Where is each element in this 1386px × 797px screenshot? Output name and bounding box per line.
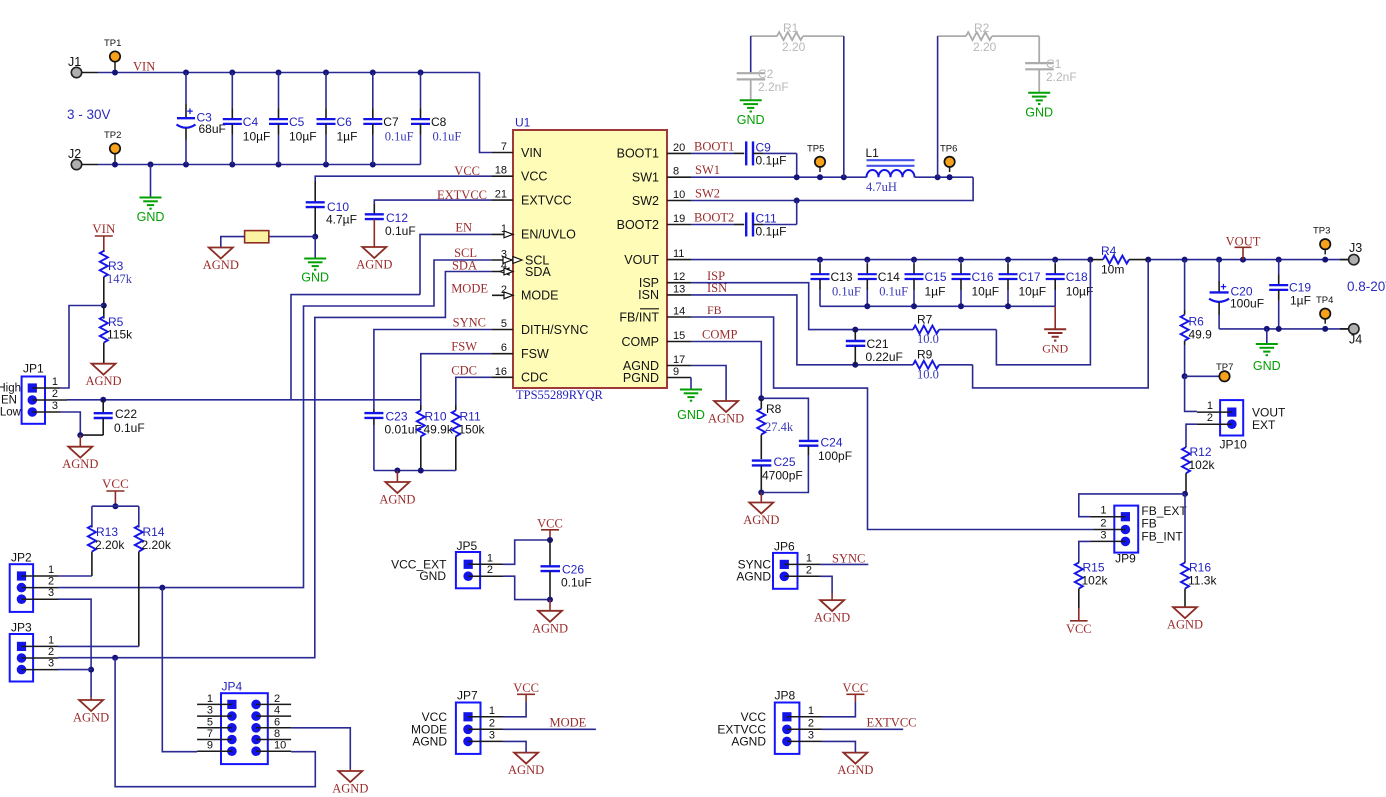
svg-text:10µF: 10µF — [1019, 285, 1047, 299]
wire COMP to R8 — [691, 342, 761, 399]
svg-text:AGND: AGND — [412, 735, 447, 749]
wire R13 to JP2 pin1 — [58, 575, 92, 577]
ground AGND at net tie — [209, 248, 233, 259]
svg-text:1: 1 — [489, 705, 495, 717]
svg-text:0.22uF: 0.22uF — [866, 350, 903, 364]
svg-text:27.4k: 27.4k — [765, 420, 794, 434]
U1 pin 19 BOOT2 — [667, 224, 691, 226]
svg-text:R12: R12 — [1190, 445, 1212, 459]
svg-text:FB_INT: FB_INT — [1141, 529, 1183, 543]
svg-text:2: 2 — [806, 564, 812, 576]
capacitor C23 0.01uF — [373, 409, 375, 413]
svg-text:C21: C21 — [867, 337, 889, 351]
snubber R1 2.20 (DNP) — [751, 35, 777, 37]
U1 pin 21 EXTVCC — [492, 199, 513, 201]
U1 pin 8 SW1 — [667, 176, 691, 178]
wire output bottom bus — [1219, 328, 1349, 330]
svg-text:10µF: 10µF — [289, 130, 317, 144]
svg-text:10µF: 10µF — [1066, 285, 1094, 299]
testpoint TP5 — [819, 162, 821, 172]
svg-text:+: + — [1220, 282, 1226, 294]
svg-text:18: 18 — [495, 165, 507, 177]
capacitor C18 10uF — [1054, 260, 1056, 264]
resistor R3 147k — [103, 250, 105, 252]
capacitor C22 0.1uF — [102, 400, 104, 413]
wire SDA branch to JP4 pin10 — [115, 658, 315, 787]
ground AGND under JP4 — [349, 769, 351, 771]
svg-text:VCC: VCC — [843, 681, 869, 695]
ground GND under C1 — [1028, 92, 1050, 94]
svg-text:AGND: AGND — [508, 763, 544, 777]
resistor R4 10m shunt — [1090, 259, 1103, 261]
svg-text:High: High — [0, 383, 21, 395]
svg-text:10: 10 — [673, 189, 685, 201]
svg-text:2: 2 — [1207, 412, 1213, 424]
svg-text:3: 3 — [48, 658, 54, 670]
svg-text:5: 5 — [501, 318, 507, 330]
svg-text:10.0: 10.0 — [917, 368, 939, 382]
wire DITH/SYNC to C23 — [374, 330, 492, 410]
junction dot C21 top — [852, 327, 858, 333]
wire SYNC stub — [820, 563, 868, 565]
ground AGND under R5 — [92, 364, 116, 375]
U1 pin2 MODE arrow — [504, 292, 513, 299]
capacitor C13 0.1uF — [819, 260, 821, 264]
ground GND PGND pin 9 — [690, 378, 692, 390]
svg-text:COMP: COMP — [702, 328, 737, 342]
svg-text:FB/INT: FB/INT — [619, 310, 659, 324]
junction dot R6 bottom — [1182, 373, 1188, 379]
svg-text:19: 19 — [673, 213, 685, 225]
svg-text:7: 7 — [207, 728, 213, 740]
wire junction to JP1 pin1 — [60, 306, 104, 389]
svg-text:SW1: SW1 — [695, 163, 720, 177]
junction dot C22 top — [100, 397, 106, 403]
wire AGND pin 17 — [691, 366, 726, 400]
svg-text:0.1uF: 0.1uF — [879, 285, 908, 299]
svg-text:10m: 10m — [1101, 263, 1124, 277]
svg-text:C12: C12 — [386, 211, 408, 225]
svg-text:3: 3 — [207, 705, 213, 717]
capacitor C1 2.2nF (DNP) — [1038, 36, 1040, 63]
resistor R12 102k — [1185, 446, 1187, 447]
svg-text:2: 2 — [487, 564, 493, 576]
ground GND at C10 — [314, 237, 316, 259]
svg-text:GND: GND — [1042, 342, 1068, 356]
capacitor C25 4700pF — [752, 459, 772, 461]
svg-text:0.8-20V: 0.8-20V — [1347, 279, 1386, 294]
wire FB_EXT to JP9 pin1 — [1079, 494, 1185, 517]
svg-text:R9: R9 — [917, 348, 933, 362]
capacitor C16 10uF — [960, 260, 962, 264]
junction dot JP3 pin2 — [112, 655, 118, 661]
svg-text:R11: R11 — [460, 410, 481, 424]
svg-text:JP10: JP10 — [1220, 438, 1248, 452]
resistor R8 27.4k — [760, 398, 762, 408]
svg-text:MODE: MODE — [451, 281, 488, 295]
svg-text:GND: GND — [137, 210, 165, 224]
jumper JP10 — [1220, 400, 1243, 435]
net tie NT1 yellow — [269, 236, 315, 238]
ground GND output — [1266, 329, 1268, 344]
wire SW2 loop — [691, 177, 973, 200]
svg-text:R16: R16 — [1189, 561, 1211, 575]
junction dots VOUT rail — [817, 257, 823, 263]
ground AGND under R16 — [1173, 607, 1197, 618]
wire JP1 pin3 to AGND — [60, 412, 80, 435]
svg-text:AGND: AGND — [736, 569, 771, 583]
junction dot R3/R5 — [101, 303, 107, 309]
wire SCL net — [58, 260, 492, 588]
U1 pin 5 DITH/SYNC — [492, 329, 513, 331]
svg-text:16: 16 — [495, 366, 507, 378]
svg-text:SW2: SW2 — [632, 194, 659, 208]
testpoint TP3 — [1324, 244, 1326, 254]
resistor R10 49.9k — [420, 405, 422, 410]
svg-text:2.20: 2.20 — [973, 40, 997, 54]
svg-text:EXTVCC: EXTVCC — [521, 193, 572, 207]
wire AGND bus under C23 — [374, 470, 456, 472]
svg-text:AGND: AGND — [814, 611, 850, 625]
svg-text:C22: C22 — [115, 407, 137, 421]
svg-text:0.1µF: 0.1µF — [756, 154, 787, 168]
wire EN net JP1 pin2 to U1 pin1 — [67, 399, 420, 401]
U1 pin 12 ISP — [667, 282, 691, 284]
svg-text:2.2nF: 2.2nF — [1046, 70, 1077, 84]
svg-text:R14: R14 — [143, 525, 165, 539]
svg-text:C13: C13 — [831, 270, 853, 284]
svg-text:TP6: TP6 — [940, 144, 957, 155]
svg-text:1: 1 — [1100, 505, 1106, 517]
svg-text:115k: 115k — [107, 328, 133, 342]
wire JP7 pin3 to AGND — [503, 741, 526, 752]
ground GND input — [150, 165, 152, 198]
junction dot JP2 pin2 — [159, 585, 165, 591]
junction dot VCC C26 — [547, 537, 553, 543]
junction dots VIN rail — [112, 70, 118, 76]
wire VIN top rail — [98, 72, 480, 74]
svg-text:TP1: TP1 — [104, 38, 121, 49]
svg-text:COMP: COMP — [622, 335, 660, 349]
wire FB net to JP9 pin2 — [691, 317, 1093, 530]
svg-text:0.1uF: 0.1uF — [385, 224, 416, 238]
svg-text:CDC: CDC — [451, 363, 477, 377]
junction dots output bottom — [1264, 326, 1270, 332]
junction dots bottom rail — [112, 162, 118, 168]
junction dot C21 bottom — [852, 362, 858, 368]
svg-text:R4: R4 — [1101, 244, 1117, 258]
svg-text:VIN: VIN — [521, 146, 542, 160]
svg-text:C9: C9 — [756, 141, 772, 155]
svg-text:AGND: AGND — [743, 513, 779, 527]
svg-text:1: 1 — [487, 552, 493, 564]
svg-text:10µF: 10µF — [972, 285, 1000, 299]
svg-text:C23: C23 — [386, 410, 408, 424]
svg-text:R1: R1 — [783, 21, 799, 35]
svg-text:3: 3 — [1100, 529, 1106, 541]
svg-text:EN: EN — [455, 220, 472, 234]
svg-text:C4: C4 — [243, 115, 259, 129]
resistor R7 10.0 — [913, 326, 939, 334]
svg-text:1: 1 — [52, 376, 58, 388]
connector J1 — [71, 67, 81, 77]
svg-text:TP7: TP7 — [1216, 362, 1233, 373]
svg-text:EXT: EXT — [1252, 418, 1276, 432]
ground GND under C2 — [740, 99, 762, 101]
junction dot SW2 C11 — [794, 198, 800, 204]
wire FSW to R10 — [421, 354, 492, 405]
svg-text:JP4: JP4 — [222, 680, 243, 694]
capacitor C10 4.7uF — [314, 181, 316, 202]
svg-text:FSW: FSW — [521, 347, 549, 361]
svg-text:Low: Low — [0, 407, 22, 419]
capacitor C21 0.22uF — [854, 330, 856, 341]
connector J3 — [1349, 254, 1359, 264]
svg-text:102k: 102k — [1189, 458, 1216, 472]
svg-text:VIN: VIN — [133, 60, 155, 74]
capacitor C19 1uF — [1278, 260, 1280, 275]
svg-text:AGND: AGND — [203, 258, 239, 272]
svg-text:C6: C6 — [337, 115, 353, 129]
wire R7 to R4 left — [996, 260, 1090, 365]
svg-text:EN: EN — [1, 395, 17, 407]
wire VIN down to U1 pin 7 — [480, 73, 493, 153]
svg-text:FB: FB — [707, 303, 722, 317]
svg-text:1: 1 — [48, 634, 54, 646]
svg-text:C14: C14 — [878, 270, 900, 284]
svg-text:BOOT1: BOOT1 — [694, 139, 734, 153]
svg-text:3: 3 — [808, 729, 814, 741]
wire JP7 pin1 to VCC — [503, 702, 526, 717]
svg-text:9: 9 — [207, 740, 213, 752]
svg-text:FB: FB — [1141, 517, 1156, 531]
svg-text:0.1uF: 0.1uF — [561, 576, 592, 590]
U1 pin 7 VIN — [492, 152, 513, 154]
svg-text:1: 1 — [48, 564, 54, 576]
svg-text:JP6: JP6 — [774, 539, 795, 553]
svg-text:13: 13 — [673, 283, 685, 295]
svg-text:J3: J3 — [1349, 241, 1362, 255]
wire SW1 row — [691, 176, 867, 178]
svg-text:10: 10 — [274, 740, 286, 752]
svg-text:R8: R8 — [766, 402, 782, 416]
testpoint TP7 — [1185, 375, 1219, 377]
svg-text:JP5: JP5 — [457, 539, 478, 553]
svg-text:J2: J2 — [68, 147, 81, 161]
svg-text:2: 2 — [808, 717, 814, 729]
U1 pin 9 PGND — [667, 377, 691, 379]
svg-text:2: 2 — [274, 693, 280, 705]
ground AGND under JP8 — [843, 753, 867, 764]
svg-text:GND: GND — [1253, 359, 1281, 373]
wire SCL branch to JP4 pin9 — [162, 588, 197, 752]
op-amp U1 TPS55289RYQR body — [513, 130, 667, 388]
svg-text:15: 15 — [673, 330, 685, 342]
U1 pin 2 MODE — [492, 294, 513, 296]
svg-text:2.20k: 2.20k — [142, 538, 172, 552]
connector J4 — [1349, 324, 1359, 334]
svg-text:JP1: JP1 — [23, 362, 44, 376]
junction dots bottom bus — [864, 303, 870, 309]
svg-text:3: 3 — [48, 587, 54, 599]
resistor R13 2.20k — [91, 506, 93, 526]
wire SW1 after L1 — [915, 176, 974, 178]
wire VOUT rail — [691, 259, 1090, 261]
wire JP4 pin6 to AGND — [291, 728, 350, 769]
wire BOOT2 to C11 — [691, 224, 734, 226]
power port VCC under R15 — [1078, 608, 1080, 621]
ground AGND under C25 — [760, 493, 762, 503]
ground AGND at C12 — [362, 247, 386, 258]
wire R12 node to R16 — [1184, 494, 1186, 561]
svg-text:PGND: PGND — [623, 371, 659, 385]
svg-text:10µF: 10µF — [243, 130, 271, 144]
junction dot R8 top — [758, 395, 764, 401]
wire R2 left leg — [937, 36, 939, 177]
resistor R16 11.3k — [1184, 561, 1186, 563]
capacitor C15 1uF — [913, 260, 915, 264]
svg-text:U1: U1 — [515, 116, 531, 130]
svg-text:AGND: AGND — [708, 412, 744, 426]
svg-text:49.9: 49.9 — [1189, 328, 1213, 342]
capacitor C17 10uF — [1007, 260, 1009, 264]
svg-text:DITH/SYNC: DITH/SYNC — [521, 323, 588, 337]
svg-text:10.0: 10.0 — [917, 332, 939, 346]
U1 pin 15 COMP — [667, 341, 691, 343]
svg-text:11.3k: 11.3k — [1188, 574, 1217, 588]
wire MODE stub JP7 — [503, 728, 596, 730]
svg-text:MODE: MODE — [550, 716, 587, 730]
U1 pin 20 BOOT1 — [667, 152, 691, 154]
svg-text:2: 2 — [48, 576, 54, 588]
svg-text:17: 17 — [673, 354, 685, 366]
ground AGND pin17 — [725, 400, 727, 402]
wire CDC to R11 — [456, 377, 492, 405]
capacitor C3 electrolytic 68uF — [185, 73, 187, 105]
junction dots AGND bus — [394, 468, 400, 474]
ground AGND under JP1 — [79, 435, 81, 447]
svg-text:CDC: CDC — [521, 371, 548, 385]
snubber R2 2.20 (DNP) — [938, 35, 966, 37]
capacitor C6 1uF — [325, 73, 327, 109]
svg-text:J1: J1 — [68, 55, 81, 69]
svg-text:8: 8 — [274, 728, 280, 740]
U1 pin 16 CDC — [492, 376, 513, 378]
svg-text:R13: R13 — [96, 525, 118, 539]
wire JP10 pin2 to R12 — [1186, 424, 1197, 446]
svg-text:JP2: JP2 — [11, 551, 32, 565]
testpoint TP2 — [114, 149, 116, 162]
svg-text:AGND: AGND — [731, 735, 766, 749]
svg-text:C15: C15 — [925, 270, 947, 284]
svg-text:3: 3 — [52, 400, 58, 412]
svg-text:SYNC: SYNC — [832, 552, 865, 566]
svg-text:BOOT2: BOOT2 — [617, 218, 659, 232]
svg-text:VCC: VCC — [537, 517, 563, 531]
svg-text:C26: C26 — [562, 563, 584, 577]
wire VCC to C10 — [315, 176, 492, 181]
svg-text:2: 2 — [489, 717, 495, 729]
wire JP6 pin2 to AGND — [820, 576, 832, 593]
U1 pin3 SCL arrows — [503, 257, 512, 264]
capacitor C7 0.1uF — [372, 73, 374, 109]
svg-text:12: 12 — [673, 271, 685, 283]
svg-text:SDA: SDA — [525, 265, 551, 279]
svg-text:100pF: 100pF — [818, 449, 852, 463]
resistor R9 10.0 — [913, 361, 939, 369]
junction dots after L1 — [935, 174, 941, 180]
svg-text:1µF: 1µF — [1290, 294, 1311, 308]
resistor R11 150k — [455, 405, 457, 410]
wire SDA net — [58, 272, 492, 658]
svg-text:BOOT1: BOOT1 — [617, 147, 659, 161]
svg-text:1: 1 — [207, 693, 213, 705]
wire JP5 pin2 to AGND node — [503, 576, 550, 599]
svg-text:EN/UVLO: EN/UVLO — [521, 228, 576, 242]
svg-text:3 - 30V: 3 - 30V — [67, 107, 111, 122]
svg-text:VOUT: VOUT — [1226, 235, 1261, 249]
svg-text:147k: 147k — [107, 272, 133, 286]
svg-text:SW1: SW1 — [632, 171, 659, 185]
svg-text:6: 6 — [501, 342, 507, 354]
svg-text:R2: R2 — [974, 21, 990, 35]
svg-text:C1: C1 — [1046, 57, 1062, 71]
svg-text:0.1µF: 0.1µF — [756, 225, 787, 239]
svg-text:2: 2 — [48, 646, 54, 658]
svg-text:0.1uF: 0.1uF — [832, 285, 861, 299]
wire EXTVCC to C12 — [374, 200, 492, 204]
svg-text:TP4: TP4 — [1316, 295, 1333, 306]
U1 pin 11 VOUT — [667, 259, 691, 261]
svg-text:VCC: VCC — [521, 170, 547, 184]
junction dots SW1 — [794, 174, 800, 180]
svg-text:J4: J4 — [1349, 333, 1362, 347]
testpoint TP4 — [1324, 314, 1326, 324]
svg-text:11: 11 — [673, 248, 684, 260]
svg-text:TP3: TP3 — [1313, 226, 1330, 237]
wire JP2 pin3 / JP3 pin3 to AGND — [58, 599, 91, 697]
svg-text:AGND: AGND — [532, 621, 568, 635]
U1 pin4 SDA arrows — [500, 268, 509, 275]
U1 pin 13 ISN — [667, 294, 691, 296]
svg-text:R10: R10 — [425, 410, 447, 424]
svg-text:C5: C5 — [289, 115, 305, 129]
svg-text:1µF: 1µF — [337, 130, 358, 144]
svg-text:R6: R6 — [1189, 315, 1205, 329]
svg-text:150k: 150k — [459, 423, 486, 437]
svg-text:GND: GND — [737, 113, 765, 127]
wire ISN from pin 13 — [691, 295, 913, 365]
svg-text:FSW: FSW — [451, 340, 477, 354]
svg-text:GND: GND — [419, 569, 446, 583]
capacitor C11 0.1uF — [734, 224, 744, 226]
svg-text:JP3: JP3 — [11, 621, 32, 635]
svg-text:1µF: 1µF — [925, 285, 946, 299]
svg-text:2.20k: 2.20k — [95, 538, 125, 552]
svg-text:3: 3 — [489, 729, 495, 741]
svg-text:4.7µF: 4.7µF — [326, 213, 357, 227]
capacitor C14 0.1uF — [866, 260, 868, 264]
svg-text:AGND: AGND — [837, 763, 873, 777]
svg-text:2: 2 — [52, 388, 58, 400]
connector J2 — [71, 159, 81, 169]
junction dot C26 bottom — [547, 597, 553, 603]
svg-text:VIN: VIN — [92, 221, 116, 236]
wire JP8 pin3 to AGND — [822, 741, 855, 752]
svg-text:4700pF: 4700pF — [762, 469, 803, 483]
svg-text:R15: R15 — [1083, 561, 1105, 575]
wire R9 to R4 right — [973, 260, 1149, 388]
